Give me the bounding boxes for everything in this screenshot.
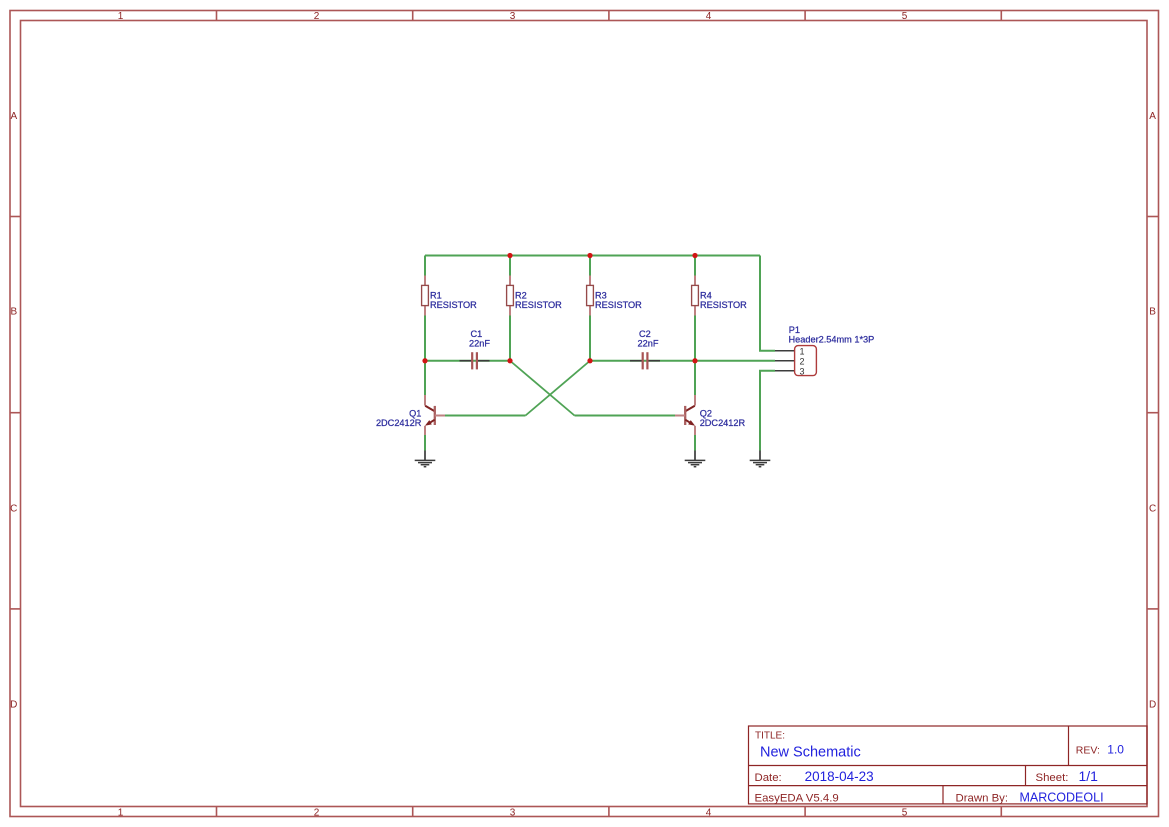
svg-text:R3: R3 [595,290,607,300]
resistor R4 [692,276,699,316]
svg-text:2DC2412R: 2DC2412R [376,418,422,428]
svg-text:22nF: 22nF [469,339,490,349]
junction R2-C1-crosswire [507,358,512,363]
svg-text:P1: P1 [789,325,800,335]
svg-text:A: A [1149,111,1156,122]
svg-text:5: 5 [902,11,908,22]
svg-text:2: 2 [800,356,805,366]
wire rail right drop to header pin1 [760,256,775,351]
connector P1 [775,346,816,376]
svg-text:RESISTOR: RESISTOR [595,300,642,310]
svg-text:D: D [1149,700,1156,711]
ground under Q2 emitter [685,451,706,467]
svg-text:R1: R1 [430,290,442,300]
wire header pin3 to ground [760,371,775,451]
svg-text:D: D [10,700,17,711]
svg-text:4: 4 [706,11,712,22]
svg-text:3: 3 [510,807,516,818]
svg-text:2: 2 [314,807,320,818]
svg-text:2: 2 [314,11,320,22]
title block [749,726,1148,804]
wire node B to header pin2 [695,360,775,362]
svg-text:RESISTOR: RESISTOR [430,300,477,310]
junction R3-C2-crosswire [587,358,592,363]
wire Q2 base horizontal [575,415,676,417]
svg-text:TITLE:: TITLE: [755,731,785,742]
svg-text:R2: R2 [515,290,527,300]
wire R4 / Q2 collector column [694,256,696,396]
svg-text:1: 1 [118,807,124,818]
transistor Q2 [675,395,695,435]
svg-text:1: 1 [800,346,805,356]
svg-text:A: A [10,111,17,122]
svg-text:2DC2412R: 2DC2412R [700,418,746,428]
ground at header pin3 net [750,451,771,467]
svg-text:R4: R4 [700,290,712,300]
wire Q1 base horizontal [445,415,526,417]
svg-text:3: 3 [800,366,805,376]
wire Q2 emitter to ground [694,435,696,451]
junction rail-R2 [507,253,512,258]
svg-text:Sheet:: Sheet: [1036,772,1069,784]
resistor R1 [422,276,429,316]
junction rail-R4 [692,253,697,258]
ground under Q1 emitter [415,451,436,467]
svg-text:3: 3 [510,11,516,22]
svg-text:C: C [1149,504,1156,515]
svg-text:Q2: Q2 [700,409,712,419]
svg-text:2018-04-23: 2018-04-23 [805,769,874,784]
svg-text:4: 4 [706,807,712,818]
junction R1-C1-Q1 collector [422,358,427,363]
wire cross-couple diagonal from R3 node to Q1 base [526,361,591,416]
wire R2 column [509,256,511,361]
resistor R2 [507,276,514,316]
svg-text:22nF: 22nF [638,339,659,349]
junction rail-R3 [587,253,592,258]
transistor Q1 [425,395,445,435]
svg-text:RESISTOR: RESISTOR [515,300,562,310]
wire Q1 emitter to ground [424,435,426,451]
svg-text:REV:: REV: [1076,744,1100,756]
svg-text:1.0: 1.0 [1107,742,1124,756]
svg-text:New Schematic: New Schematic [760,745,861,761]
svg-text:Header2.54mm 1*3P: Header2.54mm 1*3P [789,334,875,344]
wire R1 / Q1 collector column [424,256,426,396]
resistor R3 [587,276,594,316]
svg-text:C: C [10,504,17,515]
wire R3 column [589,256,591,361]
svg-text:5: 5 [902,807,908,818]
svg-text:1/1: 1/1 [1079,768,1099,784]
svg-text:1: 1 [118,11,124,22]
wire node A row through C1 [425,360,510,362]
wire node B row through C2 [590,360,695,362]
svg-text:Date:: Date: [755,772,782,784]
svg-text:RESISTOR: RESISTOR [700,300,747,310]
capacitor C1 [460,352,490,369]
junction R4-C2-Q2-P1 [692,358,697,363]
svg-text:Q1: Q1 [409,409,421,419]
svg-text:B: B [1149,307,1156,318]
svg-text:B: B [10,307,17,318]
svg-text:Drawn By:: Drawn By: [956,793,1009,805]
svg-text:MARCODEOLI: MARCODEOLI [1020,790,1104,804]
svg-text:EasyEDA V5.4.9: EasyEDA V5.4.9 [755,793,839,805]
wire cross-couple diagonal from R2 node to Q2 base [510,361,575,416]
wire VCC top rail [425,255,760,257]
capacitor C2 [630,352,660,369]
